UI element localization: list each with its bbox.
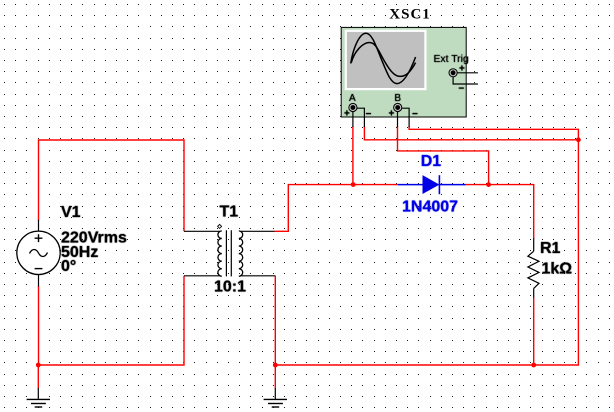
svg-text:+: + [459, 64, 465, 75]
svg-text:−: − [412, 109, 418, 120]
svg-text:XSC1: XSC1 [389, 6, 431, 22]
svg-text:+: + [344, 109, 350, 120]
svg-text:1kΩ: 1kΩ [542, 261, 573, 278]
svg-text:B: B [394, 93, 401, 104]
svg-text:−: − [366, 109, 372, 120]
svg-text:0°: 0° [61, 258, 76, 275]
svg-text:R1: R1 [540, 240, 561, 257]
svg-text:D1: D1 [421, 153, 442, 170]
svg-text:V1: V1 [61, 204, 81, 221]
svg-text:10:1: 10:1 [214, 279, 246, 296]
svg-text:+: + [389, 109, 395, 120]
svg-text:−: − [458, 83, 464, 94]
svg-text:1N4007: 1N4007 [402, 199, 458, 216]
svg-text:T1: T1 [220, 203, 239, 220]
svg-text:A: A [349, 93, 356, 104]
